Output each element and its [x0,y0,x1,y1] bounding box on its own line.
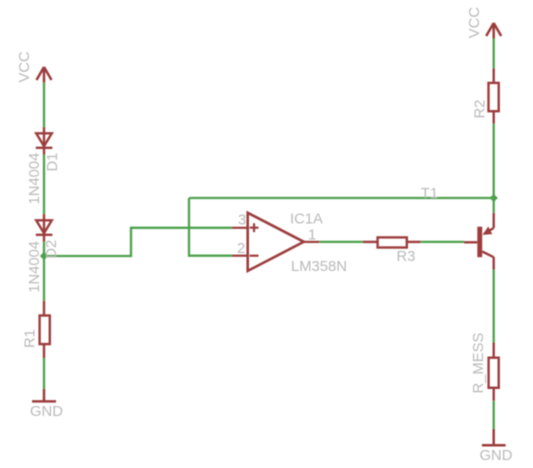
svg-text:1N4004: 1N4004 [27,241,43,293]
svg-text:IC1A: IC1A [290,212,323,228]
svg-text:2: 2 [237,241,245,257]
svg-text:1N4004: 1N4004 [27,153,43,205]
svg-text:R3: R3 [397,249,416,265]
svg-text:R_MESS: R_MESS [471,333,487,394]
svg-text:VCC: VCC [17,51,33,83]
svg-text:D1: D1 [45,153,61,172]
svg-text:D2: D2 [44,240,60,259]
svg-text:VCC: VCC [467,7,483,39]
svg-text:3: 3 [238,213,246,229]
svg-text:GND: GND [480,448,513,464]
svg-text:R2: R2 [473,100,489,119]
svg-text:GND: GND [30,404,63,420]
svg-text:T1: T1 [421,186,438,202]
svg-text:LM358N: LM358N [291,259,347,275]
svg-text:R1: R1 [23,329,39,348]
svg-text:1: 1 [308,227,316,243]
